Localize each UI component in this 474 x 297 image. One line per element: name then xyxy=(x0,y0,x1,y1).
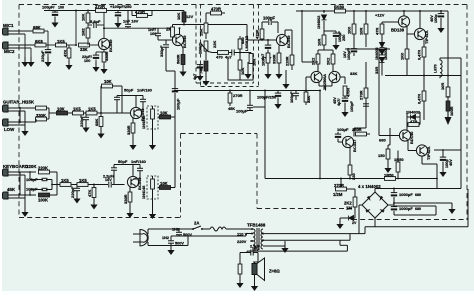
resistor 560R top xyxy=(334,5,346,13)
wire AC staircase lower xyxy=(263,234,350,241)
resistor 560R T2 emitter xyxy=(176,45,187,77)
svg-text:2K2: 2K2 xyxy=(311,57,316,65)
transistor T3 BC549 xyxy=(130,107,145,121)
capacitor 4,7uF input gnd xyxy=(261,39,272,62)
resistor 1K5 xyxy=(56,39,67,47)
svg-text:220R: 220R xyxy=(285,56,290,66)
svg-text:40V: 40V xyxy=(449,159,453,166)
wire join mics xyxy=(44,31,56,45)
connector AC plug xyxy=(133,229,148,246)
svg-text:1K5: 1K5 xyxy=(57,39,65,44)
resistor 10R mid xyxy=(359,10,368,47)
dashed mixer box right edge xyxy=(253,5,255,84)
wire output top link xyxy=(440,58,461,150)
wire 2k2 tops xyxy=(318,49,333,51)
svg-text:1K5: 1K5 xyxy=(61,178,69,183)
capacitor 50pF T3 xyxy=(114,88,134,114)
dashed mixer box left edge xyxy=(200,5,202,87)
svg-text:250: 250 xyxy=(342,35,346,41)
svg-text:1N2: 1N2 xyxy=(172,228,179,232)
wire 33K to T1 base xyxy=(90,44,99,46)
dashed mixer right edge upper xyxy=(195,5,197,84)
wire key out up xyxy=(174,117,176,188)
svg-text:330R: 330R xyxy=(123,194,128,204)
resistor 330R T3 emitter xyxy=(126,118,137,150)
svg-text:5K69: 5K69 xyxy=(334,5,345,10)
resistor 33R out xyxy=(348,148,356,181)
svg-text:500V: 500V xyxy=(175,242,184,246)
svg-text:33K: 33K xyxy=(306,96,311,103)
capacitor 100pF comp xyxy=(262,16,278,34)
svg-text:100µF/: 100µF/ xyxy=(347,47,351,60)
wire mains top xyxy=(148,228,192,230)
svg-text:TFB1488: TFB1488 xyxy=(247,223,266,228)
svg-text:10K: 10K xyxy=(160,181,168,186)
svg-text:BC549: BC549 xyxy=(182,35,187,48)
svg-text:220V: 220V xyxy=(237,239,247,244)
transistor TIP41A xyxy=(414,10,429,44)
ground guitar sleeve xyxy=(21,125,28,136)
wire bridge right xyxy=(388,203,394,207)
resistor 0,47R lower xyxy=(418,75,426,121)
resistor 2M2 feedback xyxy=(166,24,185,41)
resistor 220K key xyxy=(38,166,57,174)
svg-text:10K: 10K xyxy=(81,14,86,21)
svg-text:1K0: 1K0 xyxy=(347,26,352,34)
capacitor 1000uF/680 a xyxy=(391,188,421,204)
resistor 2K2 left xyxy=(311,50,320,72)
resistor 10K collector T2 xyxy=(176,11,186,26)
svg-text:6K8: 6K8 xyxy=(35,39,43,44)
capacitor 100uF fb xyxy=(335,127,362,142)
svg-text:680: 680 xyxy=(415,207,421,211)
wire BD140 base left xyxy=(390,128,399,145)
wire rail end down xyxy=(447,11,449,76)
dashed PCB outline right edge xyxy=(466,5,468,221)
wire mic2 to R input xyxy=(8,44,35,46)
transistor T7 diff xyxy=(311,71,322,82)
wire AC staircase top xyxy=(263,189,468,234)
wire mid rail psu xyxy=(394,203,452,205)
svg-text:10K: 10K xyxy=(57,107,65,112)
resistor 100K key xyxy=(38,193,57,202)
wire mix bus xyxy=(175,90,265,92)
svg-text:10K: 10K xyxy=(240,68,245,75)
transistor T4 BC549 xyxy=(127,176,142,190)
junction bus x230 xyxy=(229,90,231,92)
capacitor 220uF xyxy=(40,45,52,67)
resistor 1K0 T5 xyxy=(261,53,272,79)
wire T1 emitter xyxy=(103,50,105,54)
svg-text:4µ7/: 4µ7/ xyxy=(337,98,341,106)
resistor 150 xyxy=(378,145,392,173)
svg-text:100pF: 100pF xyxy=(289,91,294,103)
svg-text:47K: 47K xyxy=(63,50,68,57)
ground arrow big mid xyxy=(282,70,289,89)
svg-text:TIP41A: TIP41A xyxy=(424,30,429,44)
svg-text:LOW: LOW xyxy=(4,127,15,132)
svg-text:680: 680 xyxy=(379,138,386,143)
capacitor 330pF xyxy=(159,40,169,57)
svg-text:0,47R: 0,47R xyxy=(418,50,422,60)
ground keyboard xyxy=(21,207,28,217)
connector MIC2 xyxy=(3,42,16,54)
resistor 15K col xyxy=(199,23,208,39)
capacitor 4u7/45V xyxy=(333,97,349,117)
wire driver column down xyxy=(378,48,390,135)
transistor T1 BC549 xyxy=(98,38,113,52)
svg-text:1/2M: 1/2M xyxy=(333,192,343,197)
ground mixer left xyxy=(196,68,203,81)
ground LED xyxy=(336,218,343,229)
svg-text:BC549: BC549 xyxy=(286,35,291,48)
diode 1N4002 bias xyxy=(406,110,421,125)
resistor 1K0 right col xyxy=(249,53,256,67)
ground mic2 sleeve xyxy=(27,57,34,67)
dashed PSU bottom edge xyxy=(352,219,467,221)
wire output node xyxy=(385,75,461,77)
resistor 15K guitar xyxy=(36,106,50,110)
svg-text:1N4002: 1N4002 xyxy=(406,110,421,115)
potentiometer 10K xyxy=(198,41,213,60)
wire BD139 base xyxy=(382,21,399,23)
svg-text:10R: 10R xyxy=(252,59,257,66)
resistor 68K shunt xyxy=(94,112,105,139)
svg-text:100µ: 100µ xyxy=(434,14,438,23)
svg-text:1nF/160: 1nF/160 xyxy=(137,88,153,93)
svg-text:45K: 45K xyxy=(228,107,235,111)
capacitor 100uF/100 rail xyxy=(42,5,64,28)
svg-text:MIC1: MIC1 xyxy=(3,23,14,28)
svg-text:LM381B: LM381B xyxy=(244,36,249,51)
wire bridge left leg xyxy=(359,205,362,234)
resistor 470K input xyxy=(255,25,264,40)
svg-text:5,6pF: 5,6pF xyxy=(90,19,101,24)
transistor T5 BC549 xyxy=(276,34,291,48)
dashed preamp bottom edge xyxy=(19,217,181,219)
svg-text:1K0: 1K0 xyxy=(400,52,405,60)
svg-text:270R: 270R xyxy=(233,93,243,98)
resistor 470R top xyxy=(206,7,225,24)
wire supply rail preamp xyxy=(44,10,184,12)
capacitor 100pF a xyxy=(26,172,52,182)
node A xyxy=(75,44,77,46)
svg-text:1N4002: 1N4002 xyxy=(317,16,321,29)
resistor 10K dark xyxy=(57,107,68,115)
svg-text:10K: 10K xyxy=(160,111,168,116)
resistor 2K2 right xyxy=(326,50,335,72)
wire bus extension right xyxy=(265,90,320,92)
svg-text:12V: 12V xyxy=(186,14,193,19)
wire bridge plus xyxy=(375,189,461,193)
svg-text:50pF: 50pF xyxy=(118,159,128,164)
ground opto key xyxy=(149,199,156,219)
svg-text:100R: 100R xyxy=(449,106,454,116)
connector GUITAR HI xyxy=(3,100,35,113)
svg-text:15K: 15K xyxy=(199,29,204,36)
resistor 100R sense2 xyxy=(446,96,454,116)
resistor 680 up xyxy=(238,36,245,53)
svg-text:470: 470 xyxy=(216,55,223,60)
wire T1 collector xyxy=(103,11,105,39)
svg-text:150: 150 xyxy=(378,153,385,158)
wire psu plus drop xyxy=(434,149,461,188)
svg-text:1K5: 1K5 xyxy=(79,178,87,183)
ground psu xyxy=(448,204,455,214)
svg-text:1N2: 1N2 xyxy=(162,236,169,240)
svg-text:40V: 40V xyxy=(430,15,434,22)
svg-text:1K0: 1K0 xyxy=(261,58,266,66)
svg-text:1000µF: 1000µF xyxy=(399,206,413,211)
wire guitar to T3 xyxy=(104,112,131,114)
wire mains bottom xyxy=(148,234,250,246)
svg-text:+100µF/250: +100µF/250 xyxy=(110,4,132,9)
resistor 1K5 b xyxy=(86,107,104,115)
dashed mixer bottom edge 2 xyxy=(201,86,259,88)
svg-text:110 V: 110 V xyxy=(237,232,248,237)
capacitor 100uF/250 gnd xyxy=(257,91,282,110)
svg-text:50pF: 50pF xyxy=(124,88,134,93)
svg-text:560R: 560R xyxy=(176,54,181,64)
svg-text:10K: 10K xyxy=(104,79,112,84)
resistor 10K key out xyxy=(139,181,176,189)
svg-text:1000µF: 1000µF xyxy=(399,192,413,197)
wire rail drop left xyxy=(301,10,318,62)
transistor BD140 xyxy=(399,125,414,145)
svg-text:Z=8Ω: Z=8Ω xyxy=(269,269,280,274)
ground opto guitar xyxy=(149,129,156,150)
wire bus down right xyxy=(264,91,266,179)
resistor 10K guitar out xyxy=(142,111,176,119)
resistor 47K col xyxy=(199,61,208,77)
junction rail 2 xyxy=(87,10,89,12)
svg-text:2K2: 2K2 xyxy=(326,57,331,65)
capacitor 1nF/100 xyxy=(148,28,173,40)
wire speaker staircase xyxy=(247,240,347,251)
wire key jacks xyxy=(8,172,36,207)
svg-text:330R: 330R xyxy=(272,54,277,64)
capacitor 100uF coupling vertical xyxy=(172,71,181,117)
resistor 220R xyxy=(285,53,294,70)
svg-text:470R: 470R xyxy=(135,10,145,15)
resistor 1K5 key b xyxy=(77,178,97,186)
wire diff emitters xyxy=(319,82,332,91)
svg-text:100µF: 100µF xyxy=(176,98,181,110)
wire pot drop xyxy=(340,179,342,190)
svg-text:33K: 33K xyxy=(350,71,357,76)
resistor 33K shunt xyxy=(304,90,311,106)
svg-text:1K5: 1K5 xyxy=(73,107,81,112)
svg-text:250R: 250R xyxy=(352,127,362,132)
svg-text:BD140: BD140 xyxy=(409,131,414,144)
svg-text:330R: 330R xyxy=(104,51,109,61)
svg-text:270R: 270R xyxy=(359,90,364,100)
svg-text:330K: 330K xyxy=(36,113,46,118)
resistor 1K0 right of top xyxy=(347,10,356,36)
wire node up to rail xyxy=(75,11,77,46)
svg-text:68K: 68K xyxy=(33,25,41,30)
svg-text:100K: 100K xyxy=(38,198,48,203)
resistor 47K key shunt xyxy=(87,184,98,210)
capacitor 220pF xyxy=(79,112,90,133)
svg-text:1nF/160: 1nF/160 xyxy=(131,159,147,164)
resistor 1R50 out xyxy=(384,173,396,181)
dashed power box bottom-left edge xyxy=(257,208,352,210)
svg-text:330: 330 xyxy=(351,173,356,180)
resistor 270R bus tap xyxy=(228,91,243,112)
capacitor 2,2uF 16V out xyxy=(247,245,260,256)
capacitor 1nF/160 T4 xyxy=(131,159,147,175)
svg-text:470R: 470R xyxy=(211,7,221,12)
wire BD140 emitter to TIP42 base xyxy=(408,140,416,151)
dashed preamp right edge lower xyxy=(180,134,182,218)
node T1 output xyxy=(103,27,105,29)
dashed power box left edge xyxy=(258,5,260,87)
wire 330pF to coupling xyxy=(166,52,175,71)
ground mixer col xyxy=(202,76,209,86)
wire lower rail psu xyxy=(394,206,436,215)
svg-text:GUITAR_HI: GUITAR_HI xyxy=(3,100,26,105)
wire feedback long xyxy=(319,91,321,179)
svg-text:45K: 45K xyxy=(7,187,16,192)
summing box solid xyxy=(228,58,253,80)
wire caps join xyxy=(171,235,188,246)
resistor 47R col xyxy=(375,22,384,42)
resistor 47R bias xyxy=(407,119,420,126)
junction input xyxy=(205,28,207,30)
divider resistor 10K xyxy=(81,11,90,24)
capacitor mid 270R xyxy=(363,104,369,106)
resistor zobel speaker xyxy=(236,253,247,289)
svg-text:1M2: 1M2 xyxy=(81,27,86,36)
wire 1K5 to node xyxy=(67,44,77,46)
svg-text:22K: 22K xyxy=(212,41,217,48)
svg-text:+12V: +12V xyxy=(375,13,385,18)
dashed mixer bottom edge xyxy=(196,82,254,84)
capacitor 1nF/160 T3 xyxy=(137,88,153,107)
svg-text:220pF: 220pF xyxy=(70,186,75,198)
capacitor 22uF/100 emitter bypass xyxy=(82,52,104,72)
wire T2 collector xyxy=(179,28,181,34)
svg-text:330R: 330R xyxy=(126,125,131,135)
arrow output big xyxy=(445,111,452,125)
wire sleeves guitar xyxy=(8,111,25,125)
ground mains filter xyxy=(167,245,174,255)
resistor 47K to ground xyxy=(63,45,73,70)
capacitor 1000uF/680 b xyxy=(391,202,421,215)
svg-text:TIP42A: TIP42A xyxy=(426,146,431,160)
wire rail right xyxy=(296,10,448,12)
capacitor 1nF 16V xyxy=(123,11,139,29)
svg-text:15K: 15K xyxy=(26,100,35,105)
svg-text:470R: 470R xyxy=(347,88,351,97)
capacitor bus decouple xyxy=(236,90,265,114)
svg-text:1K5: 1K5 xyxy=(88,107,96,112)
svg-text:100: 100 xyxy=(58,6,64,10)
svg-text:BC337: BC337 xyxy=(352,139,357,152)
svg-text:100: 100 xyxy=(84,59,90,63)
resistor 330R T4 emitter xyxy=(123,187,134,218)
svg-text:10R: 10R xyxy=(359,28,364,35)
junction 4u7 xyxy=(239,52,241,54)
diode stack 1N4002 x3 xyxy=(375,43,388,76)
switch mains xyxy=(192,221,210,231)
junction bus x175 xyxy=(174,90,176,92)
svg-text:100µF/250: 100µF/250 xyxy=(257,95,277,100)
fuse mains xyxy=(210,227,250,231)
junction key dots xyxy=(29,171,58,196)
svg-text:33K: 33K xyxy=(80,47,88,52)
dashed reverb box right edge xyxy=(256,134,258,209)
wire vas down xyxy=(354,114,366,137)
resistor 68K mic1 xyxy=(33,25,44,33)
transistor T8 diff xyxy=(329,71,340,82)
capacitor 50pF T4 xyxy=(111,159,128,185)
capacitor 2,2uF/16V key xyxy=(97,175,125,188)
transistor BD139 xyxy=(391,10,410,33)
svg-text:220K: 220K xyxy=(38,166,48,171)
connector KEYBOARD low xyxy=(3,187,16,199)
junction feedback xyxy=(319,90,321,92)
wire T3 collector top xyxy=(117,96,143,111)
svg-text:BD139: BD139 xyxy=(391,28,405,33)
capacitor 5,6pF xyxy=(88,19,104,28)
svg-text:1N4002: 1N4002 xyxy=(384,47,388,60)
diode LED xyxy=(340,216,357,226)
svg-text:270R: 270R xyxy=(95,4,105,9)
svg-text:16V: 16V xyxy=(105,178,112,182)
dashed reverb box top edge xyxy=(181,133,258,135)
transistor T2 BC549 xyxy=(172,34,187,48)
divider resistor 1M2 xyxy=(81,23,90,45)
resistor 1R5 xyxy=(394,151,404,179)
junction dots output line xyxy=(319,178,438,180)
bridge rectifier xyxy=(362,192,388,218)
resistor 1K0 driver xyxy=(400,34,409,76)
resistor 250R fb xyxy=(355,132,370,136)
wire out to mixer xyxy=(184,25,263,41)
dashed PCB outline left edge xyxy=(18,5,20,218)
capacitor 100uF lower right xyxy=(439,150,453,177)
svg-text:4µ7: 4µ7 xyxy=(193,74,197,80)
transistor TIP42A xyxy=(416,145,431,160)
svg-text:220K: 220K xyxy=(26,164,37,169)
potentiometer 1/2M log xyxy=(333,183,355,197)
capacitor 4,7uF wiper xyxy=(212,51,233,60)
svg-text:100µF: 100µF xyxy=(236,109,248,114)
svg-text:100pF: 100pF xyxy=(350,100,354,112)
capacitor ch mid xyxy=(232,50,251,56)
svg-text:1nF 16V: 1nF 16V xyxy=(123,19,139,24)
optocoupler dashed box key xyxy=(142,176,158,199)
inductor L out xyxy=(434,58,443,78)
resistor 270R rail xyxy=(95,4,107,12)
svg-text:L670: L670 xyxy=(434,64,438,73)
svg-text:10K: 10K xyxy=(176,13,181,20)
transistor T6 BC337 xyxy=(342,136,357,152)
resistor 330R T5 emitter xyxy=(272,46,283,80)
wire hi jack xyxy=(8,107,36,123)
wire mic1 to R input xyxy=(8,30,33,32)
wire 1K0 down to driver xyxy=(345,34,390,49)
speaker xyxy=(252,253,280,281)
resistor 6K8 mic2 xyxy=(35,39,46,47)
resistor 330R emitter xyxy=(100,51,109,74)
ground speaker xyxy=(251,275,258,292)
capacitor 1N2 500V a xyxy=(172,228,192,238)
svg-text:0,47R: 0,47R xyxy=(418,94,422,104)
svg-text:33R: 33R xyxy=(374,67,379,74)
